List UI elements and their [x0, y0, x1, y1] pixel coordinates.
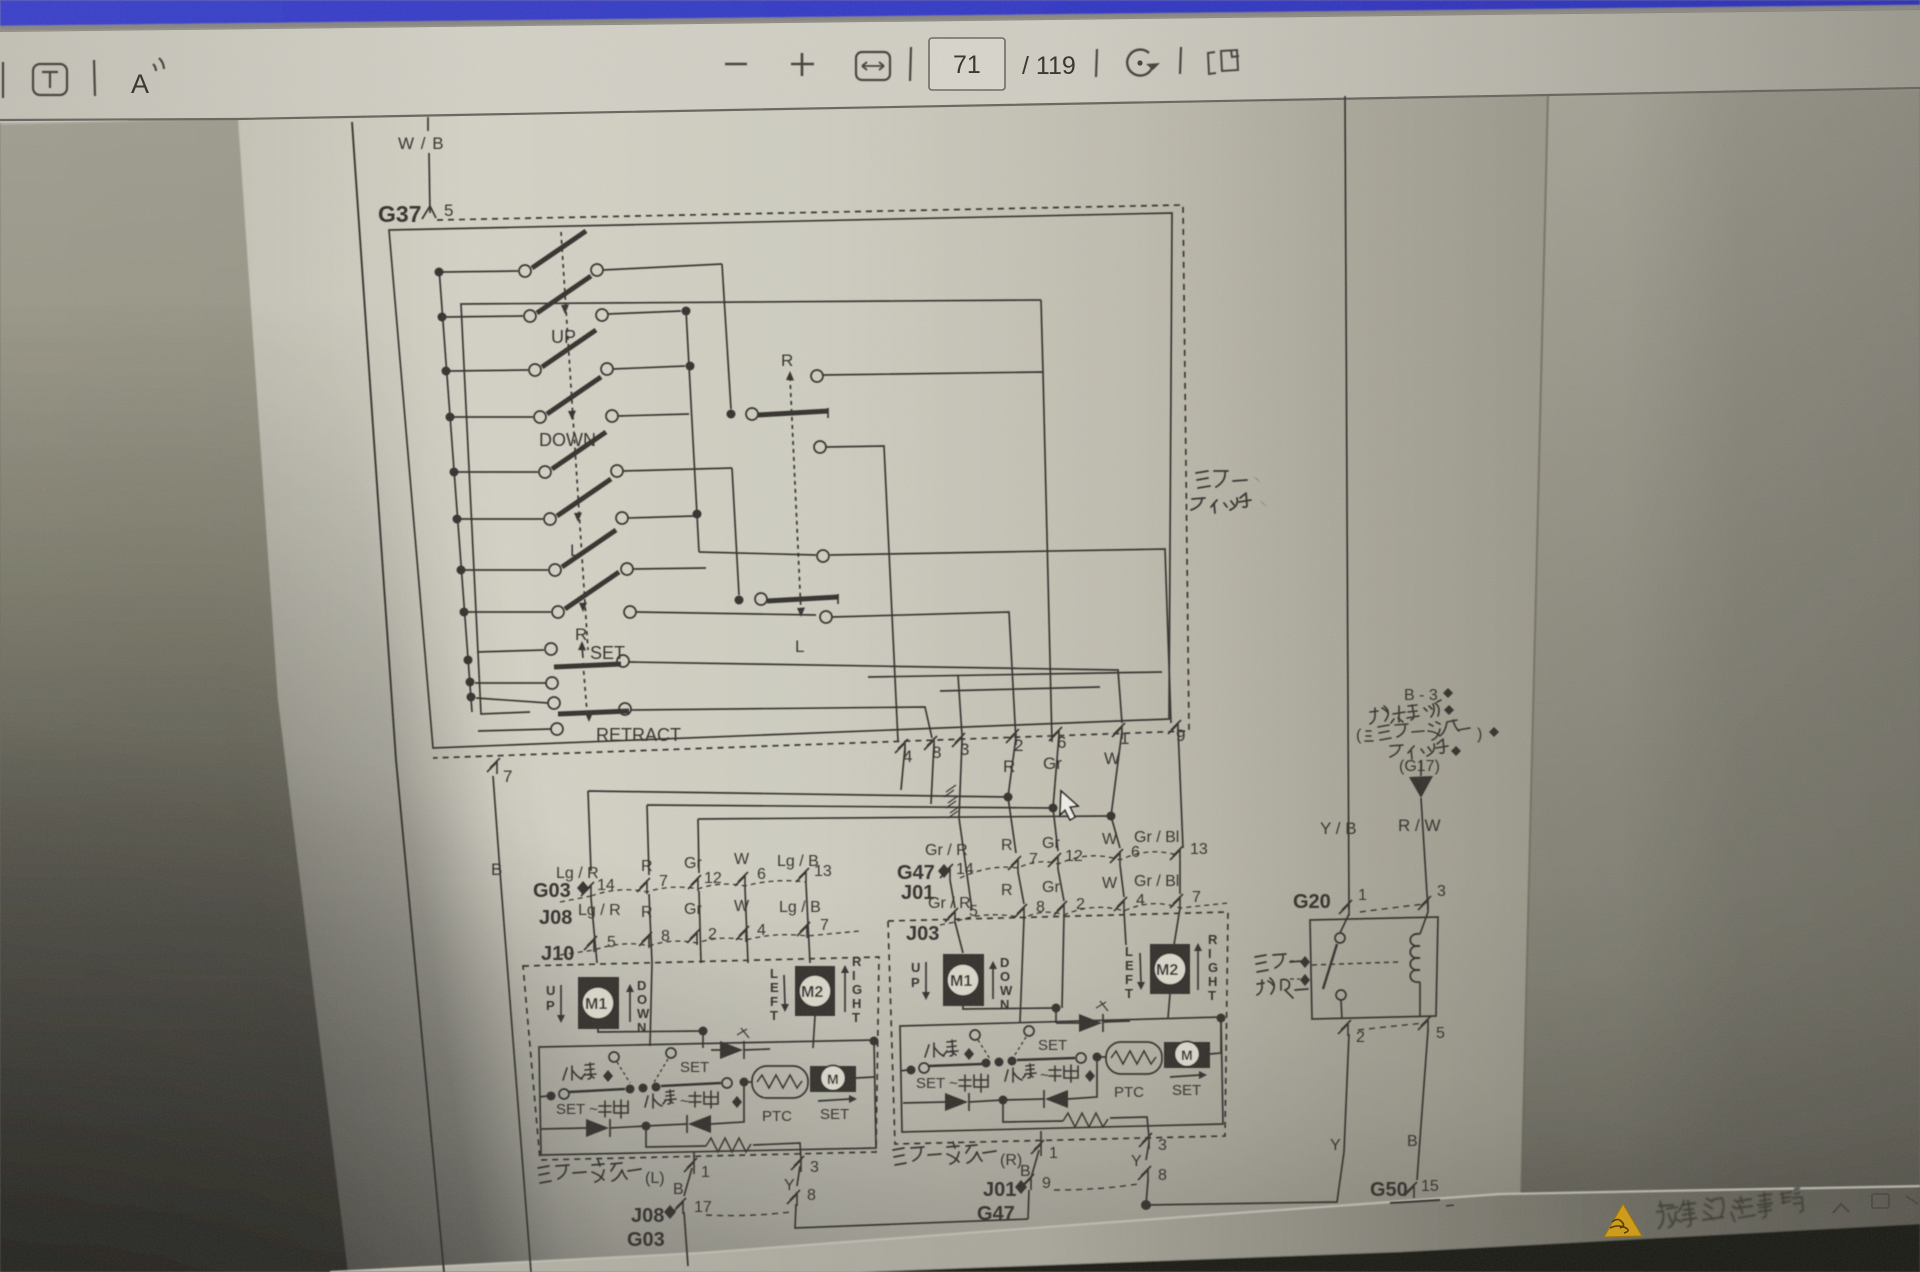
- label RIGHT + arrow (M2): [852, 954, 862, 1025]
- M2 bottom wire (R module): [1168, 994, 1170, 1018]
- J10 row dashed link: [560, 931, 860, 955]
- switch row 4 (DOWN): [454, 377, 689, 423]
- label W/B: [398, 134, 445, 153]
- M1 bottom wire to junction (R module): [963, 1006, 1056, 1009]
- wire Y to relay: [1146, 1152, 1344, 1205]
- inner function box (L module): [539, 1040, 876, 1155]
- label Y/B: [1320, 819, 1357, 838]
- wire R/W from triangle: [1421, 798, 1428, 910]
- main contact chain (L module): [539, 1078, 752, 1101]
- label B-3 riya defogger block: [1356, 687, 1499, 775]
- diode lower-right (L module): [646, 1083, 744, 1133]
- retract switch kakunou (L module): [609, 1052, 630, 1083]
- diode lower-left (R module): [903, 1093, 1003, 1111]
- G03 row dashed link: [560, 881, 806, 902]
- arrow R row: [579, 603, 587, 613]
- label UP + arrow (R module M1): [911, 960, 920, 990]
- wire B below module R pin1: [1020, 1150, 1039, 1180]
- motor M2 right module: [1150, 944, 1190, 994]
- SET output wire: [629, 662, 1122, 723]
- junction dot (R module): [1052, 1004, 1061, 1024]
- mirror motor R dashed enclosure: [888, 912, 1228, 1144]
- switch row 1 contacts and lever: [443, 231, 722, 277]
- relay pin 2: [1338, 1020, 1365, 1046]
- switch row 5: [458, 432, 732, 478]
- junction dot Gr: [1049, 804, 1058, 813]
- R toggle lower contact wire: [814, 441, 898, 741]
- resistor (L module bottom): [646, 1126, 801, 1160]
- L toggle label and arrow: [795, 608, 805, 657]
- bus2 vertical wire: [686, 310, 699, 552]
- connector G37 pin 5: [378, 201, 453, 227]
- R toggle: [727, 408, 829, 420]
- SET switch contacts: [477, 643, 629, 667]
- wires J03 into module R: [955, 908, 1180, 1022]
- wires G03 to J10 to module: [591, 884, 810, 963]
- J03 row pins 5 8 2 4 7: [945, 894, 1183, 924]
- connector B-3 G17 triangle: [1409, 760, 1433, 798]
- label SET~chukan (L): [556, 1100, 628, 1118]
- J03 pin numbers: [969, 889, 1201, 920]
- label SET arrow (L module motor): [818, 1095, 857, 1123]
- wire down from pin 8 to junction: [1146, 1180, 1148, 1205]
- G03 row pins 14 7 12 6 13: [581, 868, 809, 898]
- long bottom wire to right: [795, 1204, 1028, 1228]
- diode lower-left (L module): [541, 1119, 646, 1137]
- junction dot R: [1004, 793, 1013, 802]
- junction dot above inner box: [699, 1027, 708, 1049]
- diamond kakunou: [603, 1070, 613, 1082]
- connector G03 J08 labels: [533, 880, 572, 929]
- mirror switch solid box: [389, 213, 1172, 748]
- relay pin 3: [1418, 883, 1446, 912]
- PTC resistor (R module): [1106, 1042, 1162, 1101]
- switch row 7: [465, 530, 706, 576]
- junction dot top right (R module): [1217, 1014, 1226, 1023]
- junction dot W: [1107, 812, 1116, 821]
- pin number labels 4 8 3 2 6 1 9: [903, 726, 1185, 766]
- wire from pin 4 down-left to G03 pin 14: [588, 747, 1008, 871]
- mirror relay box G20: [1310, 917, 1438, 1019]
- diamond J08: [664, 1205, 676, 1219]
- label UP + arrow (M1): [546, 983, 555, 1013]
- connector pin 7: [487, 758, 512, 786]
- wire color labels above G03: [556, 851, 819, 882]
- label DOWN + arrow (M1): [637, 978, 650, 1035]
- labels mirror switch (katakana): [1191, 471, 1267, 513]
- label kakunou R: [925, 1040, 958, 1057]
- relay bottom dashed link: [1358, 1023, 1424, 1030]
- relay pin 5: [1418, 1016, 1445, 1042]
- connector J01 G47 bottom: [977, 1179, 1016, 1225]
- PTC resistor (L module): [752, 1066, 808, 1125]
- ground G50 pin 15: [1370, 1178, 1439, 1201]
- connector G47 J01 labels: [897, 862, 935, 904]
- motor M (L module): [810, 1066, 874, 1093]
- relay pin 1: [1339, 887, 1367, 916]
- label UP: [551, 327, 576, 347]
- connector J08 G03 bottom: [627, 1205, 665, 1251]
- module R pin 1: [1031, 1131, 1058, 1162]
- motor M2 left module: [795, 966, 835, 1016]
- main contact chain (R module): [900, 1053, 1106, 1075]
- mirror switch dashed enclosure: [433, 205, 1189, 758]
- junction dot top right corner: [870, 1037, 879, 1046]
- aux wire lower: [940, 687, 1100, 691]
- mid horizontal bus wire: [699, 549, 1171, 723]
- J10 row pins 5 8 2 4 7: [584, 922, 810, 952]
- retract switch kakunou (R module): [970, 1030, 990, 1059]
- module L pin 3: [791, 1156, 819, 1176]
- RETRACT arrow and label: [585, 713, 681, 746]
- wire R from pin 2 down to G47 pin 7: [1008, 737, 1016, 853]
- label LEFT (R module M2): [1125, 944, 1134, 1001]
- switch row 3: [450, 330, 685, 376]
- M1 bottom wire to junction: [598, 1029, 703, 1032]
- pin 8 below module R: [1138, 1166, 1167, 1184]
- bus junction dots: [435, 268, 476, 702]
- J10 pin numbers: [607, 917, 829, 951]
- wire below G47: [1028, 1190, 1029, 1219]
- RETRACT contacts: [475, 677, 631, 735]
- G47 pin numbers: [956, 841, 1208, 878]
- junction row2: [682, 307, 691, 316]
- wire below G03: [684, 1212, 688, 1266]
- wire B from pin 7: [493, 776, 531, 1272]
- label mirror relay (katakana): [1255, 954, 1308, 998]
- diamond G47: [938, 864, 950, 878]
- wire W/B vertical feed: [428, 117, 430, 213]
- label DOWN: [539, 430, 596, 450]
- left bus wire: [439, 268, 472, 712]
- module L pin 1: [684, 1152, 710, 1181]
- connector J10 label: [541, 943, 574, 965]
- dashed link 17 to 8: [706, 1212, 790, 1216]
- G03 pin numbers: [597, 863, 832, 894]
- RETRACT output wire: [631, 707, 932, 738]
- J03 row dashed link: [940, 903, 1228, 925]
- wire B below module L pin1: [673, 1168, 692, 1198]
- R toggle upper contact wire: [811, 370, 1052, 742]
- wire from pin 8 down-left to G03 pin 7: [647, 744, 1053, 875]
- SET arrow and label: [578, 641, 625, 712]
- junction dot bottom right: [1141, 1200, 1151, 1210]
- motor M (R module): [1164, 1018, 1221, 1068]
- diamond kakunou R: [964, 1048, 974, 1060]
- mirror motor L dashed enclosure: [523, 957, 879, 1160]
- junction row3: [686, 362, 695, 371]
- G47 row dashed link: [960, 852, 1180, 878]
- pin 9 (J01): [1021, 1174, 1051, 1192]
- label R/W: [1398, 816, 1441, 835]
- aux wire to pin 3: [868, 672, 1162, 735]
- arrow DOWN row: [568, 411, 576, 421]
- wire row1 to R toggle: [722, 264, 731, 409]
- motor M1 left: [578, 977, 619, 1029]
- motor M1 right module: [943, 954, 984, 1006]
- junction row6: [693, 510, 702, 519]
- label RIGHT + arrow (R module M2): [1208, 932, 1218, 1003]
- R toggle label and arrow: [781, 351, 801, 612]
- wire color labels above J03: [928, 873, 1179, 912]
- relay coil: [1410, 912, 1428, 1016]
- M2 bottom wire: [813, 1016, 815, 1048]
- label mirror motor R (katakana): [893, 1142, 1022, 1169]
- wire B from relay pin 5: [1417, 1030, 1428, 1180]
- relay switch contact: [1323, 914, 1349, 1019]
- wire color labels above G47: [925, 829, 1179, 859]
- inner function box (R module): [900, 1017, 1223, 1132]
- label kakunou~chukan (R): [1005, 1064, 1078, 1084]
- label LEFT (M2): [770, 966, 779, 1023]
- dashed link 9 to 8 (right): [1054, 1184, 1138, 1190]
- label Y on wire: [1330, 1137, 1341, 1154]
- junction dot between diodes: [642, 1122, 651, 1131]
- diamond chukan: [732, 1096, 742, 1108]
- resistor (R module bottom): [1003, 1100, 1149, 1137]
- wire J10 pin8 into module: [650, 963, 652, 1046]
- diode top (R module): [1056, 1001, 1130, 1032]
- switch row 6 (L): [461, 479, 694, 525]
- label kakunou L: [563, 1063, 596, 1080]
- label mirror motor L (katakana): [538, 1160, 665, 1187]
- label B: [491, 860, 502, 879]
- switch row 2 (UP): [446, 276, 681, 322]
- diamond G03: [577, 881, 589, 895]
- label SET arrow (R module motor): [1170, 1071, 1207, 1099]
- SET contact (R module): [1013, 1026, 1067, 1058]
- dashed selector line UP/DOWN/L/R: [561, 232, 588, 650]
- wire from pin 3 down-left to G03 pin 12: [698, 741, 1111, 910]
- wire Gr from pin 6 down to G47 pin 12: [1053, 735, 1059, 851]
- diamond chukan R: [1085, 1070, 1095, 1082]
- label kakunou~chukan (L): [645, 1090, 718, 1110]
- label R: [575, 625, 587, 644]
- wire color labels above J10: [578, 898, 821, 921]
- relay top dashed link: [1360, 904, 1424, 912]
- wire Gr/Bl from pin 9 down to G47 pin 13: [1178, 728, 1183, 848]
- junction dot between diodes (R module): [999, 1096, 1008, 1105]
- pin 17: [673, 1198, 712, 1216]
- wire color labels R Gr W below pins: [1003, 749, 1120, 776]
- relay dashed actuator line: [1312, 962, 1398, 965]
- diamond J01: [1015, 1180, 1027, 1194]
- wire Y below module R pin3: [1131, 1143, 1149, 1170]
- label SET~chukan (R): [916, 1074, 988, 1092]
- wire Y/B from top: [1345, 96, 1349, 910]
- SET contact (L module): [653, 1048, 709, 1084]
- L toggle: [735, 593, 839, 605]
- wire W from pin 1 down to G47 pin 6: [1111, 731, 1122, 848]
- inner bracket box: [461, 300, 1043, 714]
- diode lower-right (R module): [1003, 1057, 1097, 1108]
- page left long wire: [352, 122, 444, 1272]
- pin 8 below module L: [787, 1187, 816, 1206]
- wire crossing ticks: [944, 785, 960, 818]
- relay G20 label: [1293, 891, 1331, 913]
- label L: [570, 541, 579, 560]
- connector J03 label: [906, 923, 939, 945]
- wires G47 to J03: [950, 862, 1180, 908]
- wire Y below module L pin3: [784, 1166, 800, 1194]
- label B on wire: [1407, 1133, 1418, 1150]
- taskbar kanji text 疾強風注意報: [1656, 1188, 1803, 1229]
- wire Y from relay pin 2: [1344, 1034, 1349, 1152]
- L toggle lower contact wire: [820, 611, 1016, 741]
- G47 row pins 14 7 12 6 13: [940, 846, 1183, 880]
- arrow UP row: [561, 305, 569, 315]
- module R pin 3: [1139, 1133, 1167, 1154]
- relay actuator diamonds: [1290, 956, 1310, 986]
- diode top (L module): [711, 1028, 770, 1059]
- label DOWN + arrow (R module M1): [1000, 955, 1013, 1012]
- wire row5 to L toggle: [732, 468, 739, 595]
- connector pins 4 8 3 2 6 1 9 on dashed edge: [895, 720, 1181, 755]
- mouse cursor: [1060, 791, 1078, 820]
- arrow L row: [574, 513, 582, 523]
- switch row 8 (R): [468, 572, 816, 618]
